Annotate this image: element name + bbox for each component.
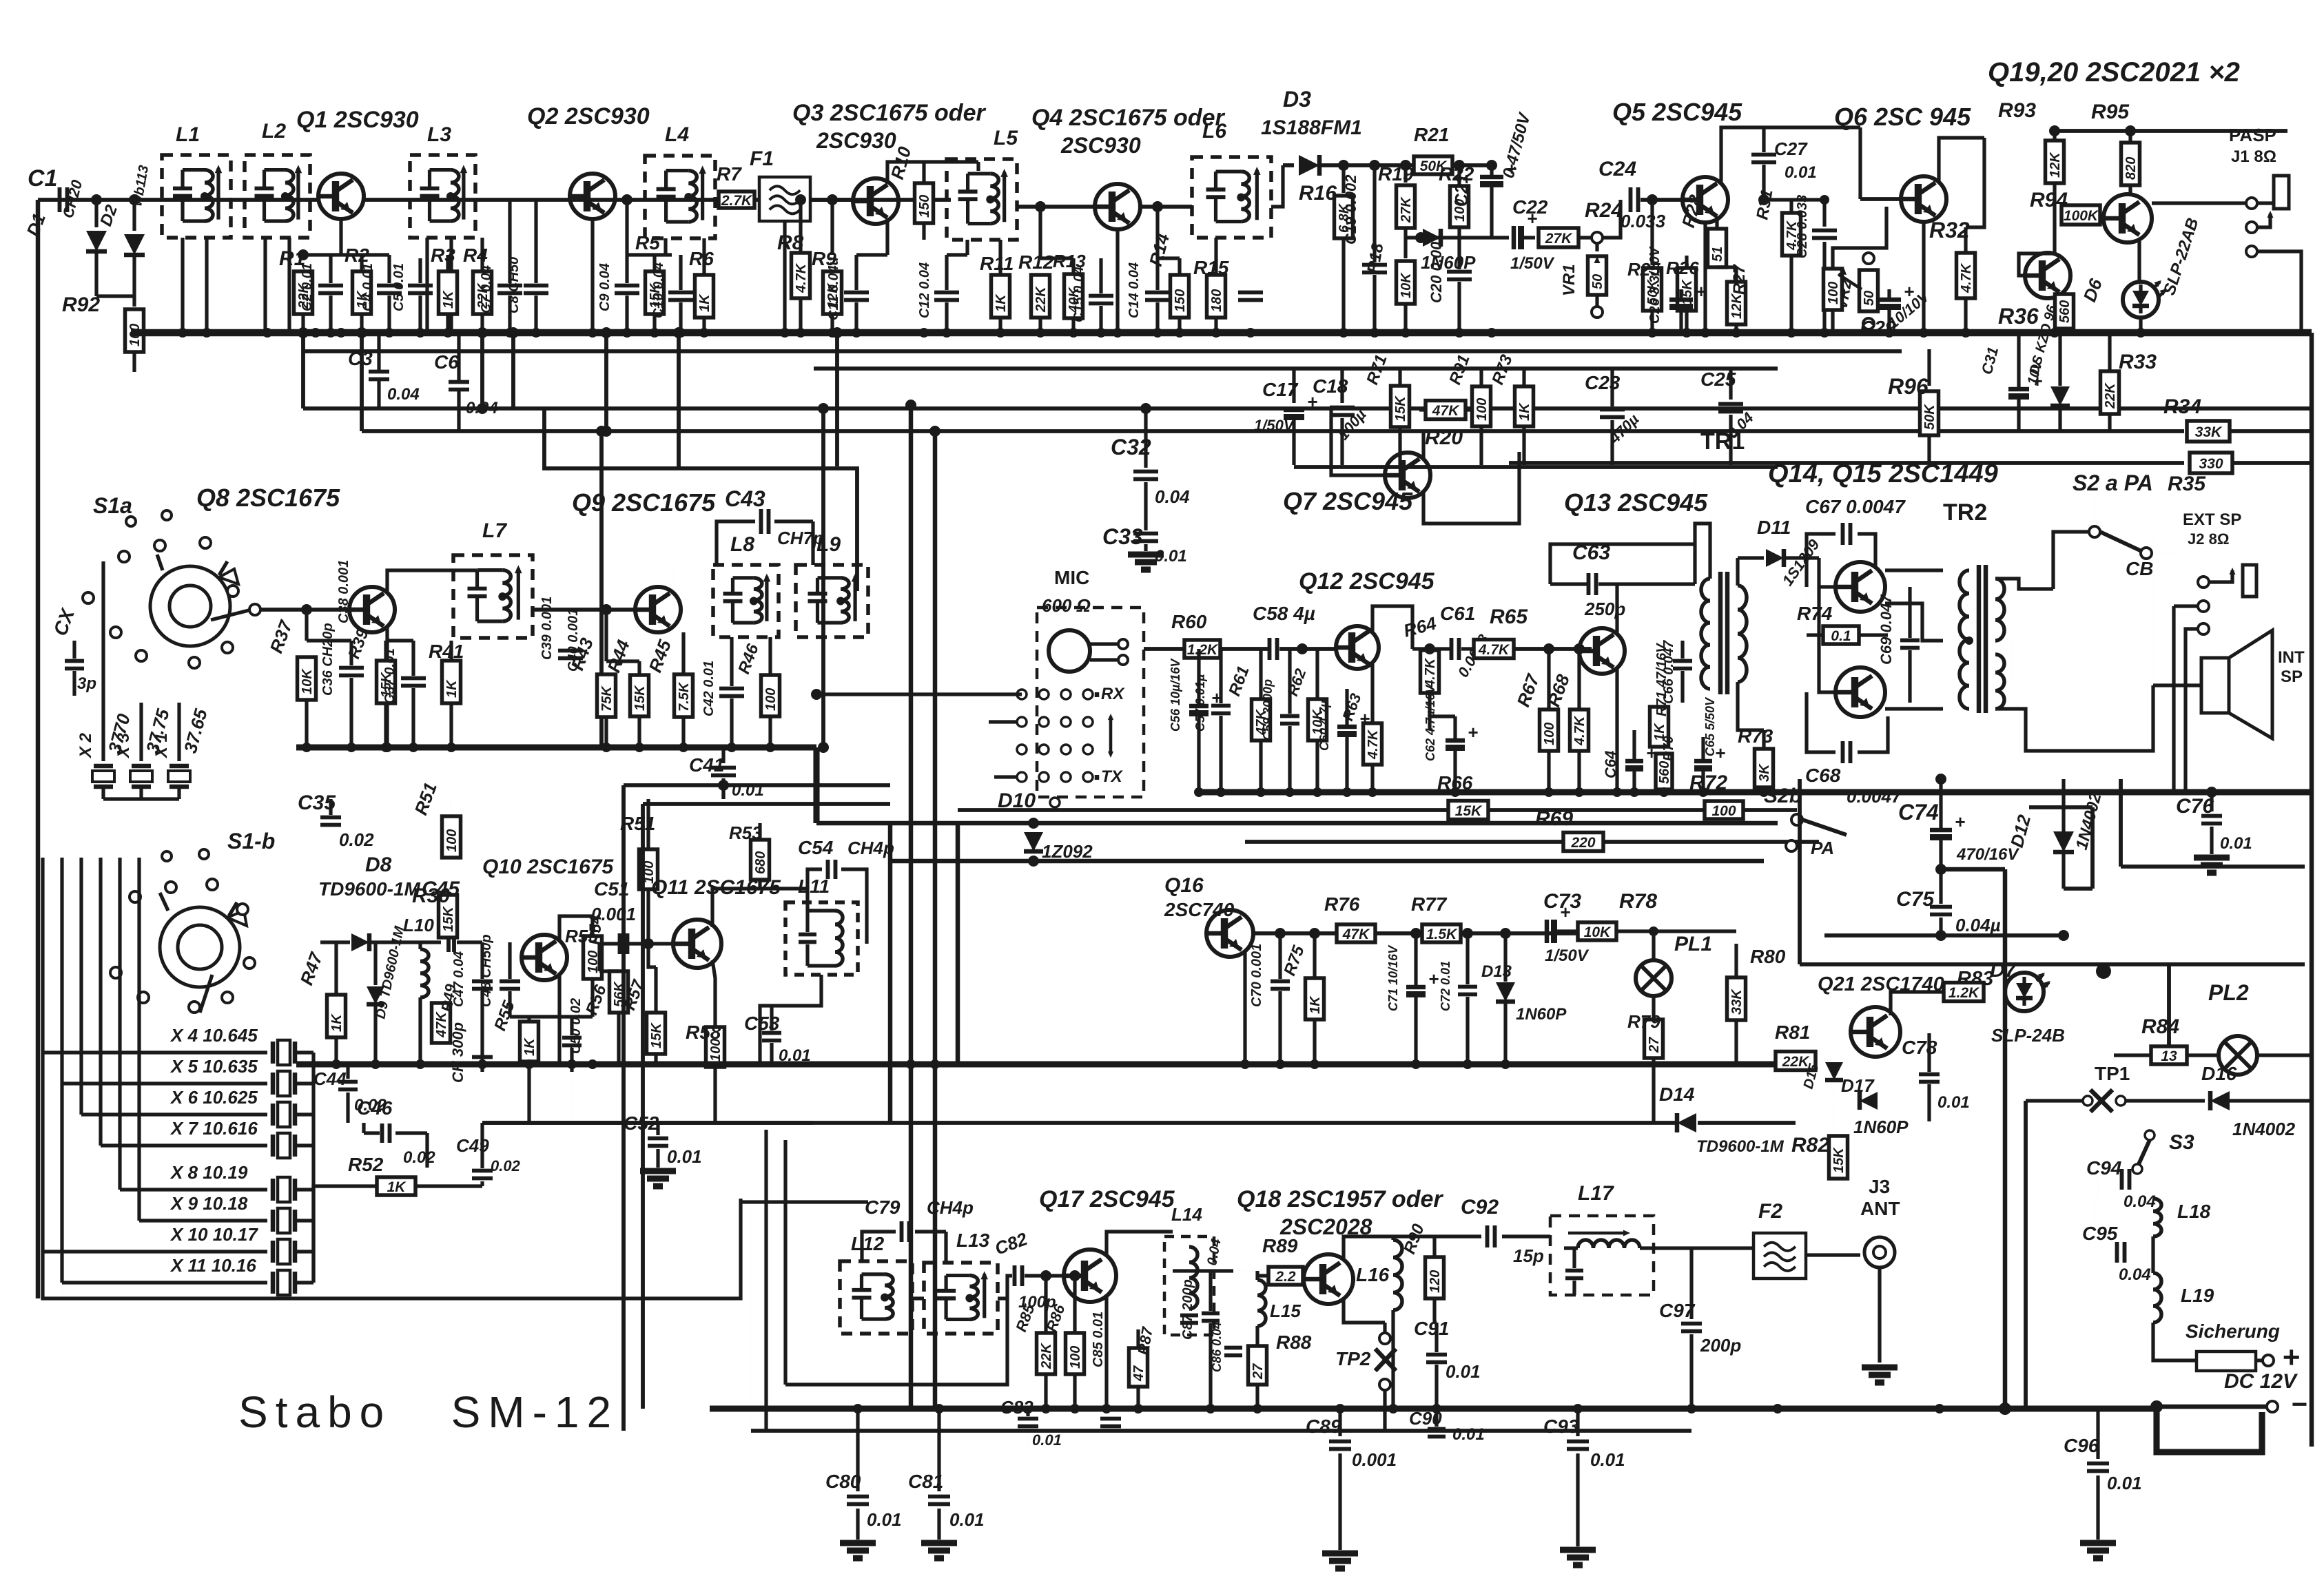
svg-text:L13: L13 <box>956 1230 990 1251</box>
svg-text:L8: L8 <box>730 533 754 556</box>
svg-text:0.001: 0.001 <box>1352 1449 1397 1470</box>
svg-text:C39 0.001: C39 0.001 <box>539 597 555 660</box>
svg-text:0.01: 0.01 <box>1446 1361 1481 1382</box>
svg-text:4.7K: 4.7K <box>794 262 809 293</box>
svg-text:120: 120 <box>1428 1270 1443 1293</box>
svg-text:4.7K: 4.7K <box>1572 715 1587 746</box>
svg-text:C50 0.02: C50 0.02 <box>568 998 584 1054</box>
svg-text:C4 0.01: C4 0.01 <box>360 263 376 311</box>
svg-text:12K: 12K <box>1729 293 1745 319</box>
svg-text:L12: L12 <box>851 1233 885 1254</box>
svg-text:R82: R82 <box>1791 1134 1829 1157</box>
svg-text:27K: 27K <box>1399 196 1414 223</box>
svg-text:CB: CB <box>2126 558 2153 579</box>
svg-text:C28 0.033: C28 0.033 <box>1795 195 1810 258</box>
svg-text:2.7K: 2.7K <box>721 193 753 209</box>
svg-text:600 Ω: 600 Ω <box>1042 595 1091 616</box>
svg-text:R26: R26 <box>1666 258 1699 278</box>
svg-text:TD9600-1M: TD9600-1M <box>318 878 421 900</box>
svg-text:C15 0.04: C15 0.04 <box>1071 267 1087 322</box>
svg-text:R93: R93 <box>1998 99 2036 122</box>
svg-text:SP: SP <box>2281 667 2303 686</box>
svg-text:PASP: PASP <box>2229 125 2276 145</box>
svg-text:C68: C68 <box>1805 765 1841 786</box>
svg-text:C38 0.001: C38 0.001 <box>336 560 351 623</box>
svg-text:R58: R58 <box>686 1022 721 1043</box>
svg-text:27: 27 <box>1647 1037 1662 1053</box>
svg-text:R53: R53 <box>729 822 762 843</box>
svg-text:0.1: 0.1 <box>1831 628 1851 644</box>
svg-text:51: 51 <box>1710 247 1725 262</box>
svg-text:47K: 47K <box>434 1011 449 1038</box>
svg-text:L17: L17 <box>1578 1182 1614 1205</box>
svg-text:C44: C44 <box>313 1068 347 1089</box>
svg-text:R79: R79 <box>1627 1011 1660 1032</box>
svg-text:1K: 1K <box>697 293 712 312</box>
svg-text:R89: R89 <box>1262 1235 1298 1256</box>
svg-text:0.01: 0.01 <box>2220 834 2252 853</box>
svg-text:ANT: ANT <box>1860 1198 1900 1219</box>
svg-text:D17: D17 <box>1841 1075 1875 1096</box>
svg-text:0.02: 0.02 <box>403 1148 435 1167</box>
svg-text:C81: C81 <box>908 1471 943 1492</box>
svg-text:0.01: 0.01 <box>949 1509 985 1530</box>
svg-text:C58 4µ: C58 4µ <box>1253 603 1315 624</box>
svg-text:4.7K: 4.7K <box>1959 262 1974 293</box>
svg-text:100: 100 <box>1474 398 1490 421</box>
svg-text:0.001: 0.001 <box>591 904 636 924</box>
svg-text:820: 820 <box>2124 157 2139 180</box>
svg-text:0.04µ: 0.04µ <box>1955 915 2001 935</box>
svg-text:R84: R84 <box>2141 1015 2179 1038</box>
svg-text:R96: R96 <box>1888 374 1929 399</box>
svg-text:L2: L2 <box>262 120 286 143</box>
svg-text:R19: R19 <box>1378 163 1414 185</box>
svg-text:1Z092: 1Z092 <box>1042 841 1093 862</box>
svg-text:X 11 10.16: X 11 10.16 <box>169 1255 256 1276</box>
svg-text:X 6 10.625: X 6 10.625 <box>169 1087 258 1108</box>
svg-text:X 3: X 3 <box>114 732 133 759</box>
svg-text:1/50V: 1/50V <box>1510 254 1555 273</box>
svg-text:C62 4.7µ/16V: C62 4.7µ/16V <box>1423 684 1437 761</box>
svg-text:Q19,20 2SC2021 ×2: Q19,20 2SC2021 ×2 <box>1988 57 2240 87</box>
svg-text:C54: C54 <box>798 837 834 858</box>
svg-text:R95: R95 <box>2091 101 2130 123</box>
svg-text:250p: 250p <box>1584 599 1625 619</box>
svg-text:L7: L7 <box>482 519 507 542</box>
svg-text:R20: R20 <box>1425 426 1463 449</box>
svg-text:R4: R4 <box>463 245 488 266</box>
svg-text:1/50V: 1/50V <box>1545 946 1590 965</box>
svg-text:DC 12V: DC 12V <box>2224 1370 2299 1393</box>
svg-text:C32: C32 <box>1111 435 1151 459</box>
svg-text:1N60P: 1N60P <box>1853 1117 1909 1137</box>
svg-text:C66 0.047: C66 0.047 <box>1661 640 1676 704</box>
svg-text:CH4p: CH4p <box>847 838 894 858</box>
svg-text:C22: C22 <box>1512 196 1548 218</box>
svg-text:13: 13 <box>2161 1048 2177 1064</box>
svg-text:C87 200p: C87 200p <box>1180 1279 1195 1340</box>
svg-text:27: 27 <box>1251 1363 1266 1380</box>
svg-text:Q4 2SC1675 oder: Q4 2SC1675 oder <box>1031 105 1225 131</box>
svg-text:R78: R78 <box>1619 890 1657 913</box>
svg-text:Q3 2SC1675 oder: Q3 2SC1675 oder <box>792 100 986 126</box>
svg-text:RX: RX <box>1101 685 1125 703</box>
svg-text:10K: 10K <box>1584 924 1612 940</box>
svg-text:PL2: PL2 <box>2208 980 2249 1005</box>
svg-text:L18: L18 <box>2177 1201 2211 1222</box>
svg-text:C57 0.01µ: C57 0.01µ <box>1193 674 1207 732</box>
svg-text:220: 220 <box>1570 835 1595 851</box>
svg-text:R65: R65 <box>1490 605 1528 628</box>
svg-text:R55: R55 <box>565 926 598 946</box>
svg-text:R94: R94 <box>2030 189 2068 211</box>
svg-text:R16: R16 <box>1299 182 1337 205</box>
svg-text:50: 50 <box>1862 291 1877 306</box>
svg-text:R7: R7 <box>717 163 742 185</box>
svg-text:+: + <box>1696 281 1706 302</box>
svg-text:0.01: 0.01 <box>667 1146 702 1167</box>
svg-text:2.2: 2.2 <box>1275 1269 1296 1285</box>
svg-text:C17: C17 <box>1262 379 1299 400</box>
svg-text:27K: 27K <box>1545 231 1573 247</box>
svg-text:C74: C74 <box>1898 800 1939 825</box>
svg-text:2SC930: 2SC930 <box>816 128 896 153</box>
svg-text:Q18 2SC1957 oder: Q18 2SC1957 oder <box>1237 1186 1443 1212</box>
svg-text:1.2K: 1.2K <box>1948 985 1980 1001</box>
svg-text:R27: R27 <box>1730 263 1749 295</box>
svg-text:R69: R69 <box>1535 807 1573 830</box>
svg-text:47K: 47K <box>1342 926 1370 942</box>
svg-text:X 4 10.645: X 4 10.645 <box>169 1025 258 1046</box>
svg-text:R21: R21 <box>1414 124 1449 145</box>
svg-text:100: 100 <box>1826 282 1841 304</box>
svg-text:TD9600-1M: TD9600-1M <box>1696 1137 1785 1156</box>
svg-text:33K: 33K <box>2195 424 2223 440</box>
svg-text:C65 5/50V: C65 5/50V <box>1703 696 1717 756</box>
svg-text:D14: D14 <box>1659 1084 1695 1105</box>
svg-text:180: 180 <box>1209 289 1224 312</box>
svg-text:F2: F2 <box>1758 1200 1782 1223</box>
svg-text:3p: 3p <box>77 674 96 693</box>
svg-text:330: 330 <box>2199 456 2223 472</box>
svg-text:C93: C93 <box>1543 1416 1579 1437</box>
svg-text:1K: 1K <box>329 1013 345 1032</box>
svg-text:S2 a PA: S2 a PA <box>2073 470 2153 495</box>
svg-text:C2 0.01: C2 0.01 <box>300 263 315 311</box>
svg-text:7.5K: 7.5K <box>677 681 692 712</box>
svg-text:+: + <box>1955 811 1965 832</box>
svg-text:+: + <box>1428 969 1439 989</box>
svg-text:C6: C6 <box>434 351 459 373</box>
svg-text:D16: D16 <box>2201 1063 2237 1084</box>
svg-text:J1 8Ω: J1 8Ω <box>2231 147 2276 166</box>
svg-text:TR1: TR1 <box>1700 428 1745 455</box>
svg-text:C10 0.04: C10 0.04 <box>651 262 666 318</box>
svg-text:R36: R36 <box>1998 304 2039 329</box>
svg-text:1K: 1K <box>1308 995 1323 1014</box>
svg-text:0.01: 0.01 <box>1937 1093 1970 1112</box>
svg-text:1K: 1K <box>444 679 460 698</box>
svg-text:1K: 1K <box>1517 402 1532 421</box>
svg-text:TP1: TP1 <box>2095 1063 2130 1084</box>
svg-text:C79: C79 <box>865 1197 901 1218</box>
svg-text:Q2 2SC930: Q2 2SC930 <box>527 103 650 130</box>
svg-text:EXT SP: EXT SP <box>2183 510 2241 529</box>
svg-text:L4: L4 <box>665 123 689 146</box>
svg-text:C75: C75 <box>1896 888 1935 911</box>
svg-text:560: 560 <box>2057 300 2073 323</box>
svg-text:0.04: 0.04 <box>2119 1265 2151 1284</box>
svg-text:C9 0.04: C9 0.04 <box>597 263 613 311</box>
svg-text:C1: C1 <box>28 165 57 191</box>
svg-text:R32: R32 <box>1929 218 1970 242</box>
svg-text:100: 100 <box>763 688 779 711</box>
svg-text:INT: INT <box>2278 648 2305 667</box>
svg-text:100: 100 <box>1068 1346 1083 1369</box>
svg-text:R41: R41 <box>429 641 464 662</box>
svg-text:C85 0.01: C85 0.01 <box>1091 1312 1106 1367</box>
svg-text:R52: R52 <box>348 1154 384 1175</box>
svg-text:C47 0.04: C47 0.04 <box>451 951 466 1007</box>
svg-text:C53: C53 <box>744 1013 780 1034</box>
svg-text:Sicherung: Sicherung <box>2186 1321 2280 1342</box>
svg-text:C73: C73 <box>1543 890 1581 913</box>
svg-text:C76: C76 <box>2176 795 2214 818</box>
svg-text:C7 0.04: C7 0.04 <box>479 265 494 313</box>
svg-text:C25: C25 <box>1700 369 1736 390</box>
svg-text:Q17 2SC945: Q17 2SC945 <box>1039 1186 1175 1212</box>
svg-text:C20 0.001: C20 0.001 <box>1428 233 1445 303</box>
svg-text:C27: C27 <box>1774 138 1808 159</box>
svg-text:C46: C46 <box>357 1097 393 1119</box>
svg-text:C80: C80 <box>825 1471 861 1492</box>
svg-text:R77: R77 <box>1411 893 1448 915</box>
svg-text:C35: C35 <box>298 791 336 814</box>
svg-text:X 1: X 1 <box>152 733 171 759</box>
svg-text:R60: R60 <box>1171 611 1207 632</box>
svg-text:0.01: 0.01 <box>867 1509 902 1530</box>
svg-text:C86 0.04: C86 0.04 <box>1210 1322 1224 1372</box>
svg-text:PL1: PL1 <box>1674 933 1712 955</box>
svg-text:J3: J3 <box>1869 1176 1890 1197</box>
svg-text:C11 0.04u: C11 0.04u <box>826 257 841 320</box>
svg-text:C71 10/16V: C71 10/16V <box>1386 944 1400 1011</box>
svg-text:0.02: 0.02 <box>491 1157 521 1174</box>
svg-text:CH 300p: CH 300p <box>449 1022 466 1083</box>
svg-text:D8: D8 <box>365 853 392 876</box>
svg-text:L15: L15 <box>1270 1301 1301 1321</box>
svg-text:100: 100 <box>1711 803 1736 819</box>
svg-text:X 9 10.18: X 9 10.18 <box>169 1193 248 1214</box>
svg-text:15K: 15K <box>633 685 648 711</box>
svg-text:0.01: 0.01 <box>1452 1425 1485 1444</box>
svg-text:0.02: 0.02 <box>339 829 374 850</box>
svg-text:100K: 100K <box>2064 208 2099 224</box>
svg-text:C33: C33 <box>1102 524 1143 549</box>
svg-text:200p: 200p <box>1700 1335 1741 1356</box>
svg-text:C59 3000p: C59 3000p <box>1261 679 1275 741</box>
svg-text:C61: C61 <box>1440 603 1475 624</box>
svg-text:R76: R76 <box>1324 893 1360 915</box>
svg-text:15K: 15K <box>441 906 456 932</box>
svg-text:C63: C63 <box>1572 541 1610 564</box>
svg-text:C92: C92 <box>1461 1196 1499 1219</box>
svg-text:−: − <box>2291 1389 2307 1420</box>
svg-text:22K: 22K <box>2103 382 2118 409</box>
svg-text:75K: 75K <box>599 685 615 712</box>
svg-text:Q10 2SC1675: Q10 2SC1675 <box>482 856 614 878</box>
svg-text:Stabo SM-12: Stabo SM-12 <box>238 1387 619 1437</box>
svg-text:R11: R11 <box>980 253 1014 274</box>
svg-text:R8: R8 <box>777 231 804 254</box>
svg-text:680: 680 <box>753 851 768 874</box>
svg-text:C56 10µ/16V: C56 10µ/16V <box>1169 658 1182 732</box>
svg-text:R88: R88 <box>1276 1332 1312 1353</box>
svg-text:Q1 2SC930: Q1 2SC930 <box>296 107 419 133</box>
svg-text:CH7p: CH7p <box>777 528 824 548</box>
svg-text:10K: 10K <box>1399 272 1414 298</box>
svg-text:R74: R74 <box>1797 603 1833 624</box>
svg-text:TP2: TP2 <box>1335 1348 1371 1369</box>
svg-text:C26 3.3/10V: C26 3.3/10V <box>1647 246 1663 324</box>
svg-text:VR1: VR1 <box>1560 264 1579 296</box>
svg-text:3K: 3K <box>1757 763 1772 782</box>
svg-text:33K: 33K <box>1729 988 1745 1015</box>
svg-text:560: 560 <box>1657 761 1672 784</box>
svg-text:L5: L5 <box>994 127 1018 149</box>
svg-text:TX: TX <box>1101 767 1124 786</box>
svg-text:Q12 2SC945: Q12 2SC945 <box>1299 568 1435 594</box>
svg-text:100: 100 <box>444 829 460 852</box>
svg-text:R5: R5 <box>635 232 660 253</box>
svg-text:0.04: 0.04 <box>2124 1192 2156 1211</box>
svg-text:R80: R80 <box>1750 946 1786 967</box>
svg-text:C41: C41 <box>689 754 724 776</box>
svg-text:0.04: 0.04 <box>466 399 498 417</box>
svg-text:D11: D11 <box>1757 517 1791 538</box>
svg-text:Q6 2SC 945: Q6 2SC 945 <box>1834 103 1971 131</box>
svg-text:R72: R72 <box>1689 772 1727 794</box>
svg-text:L11: L11 <box>798 876 830 897</box>
svg-text:R34: R34 <box>2163 395 2201 418</box>
svg-text:0.04: 0.04 <box>387 385 420 404</box>
svg-text:1N60P: 1N60P <box>1516 1005 1567 1024</box>
svg-text:C60 4.7µ: C60 4.7µ <box>1317 700 1331 751</box>
svg-text:R92: R92 <box>62 293 100 316</box>
svg-text:C89: C89 <box>1306 1416 1341 1437</box>
svg-text:L10: L10 <box>403 915 434 935</box>
svg-text:50K: 50K <box>1922 404 1937 430</box>
svg-text:R35: R35 <box>2168 473 2206 495</box>
svg-text:470/16V: 470/16V <box>1956 845 2019 864</box>
svg-text:12K: 12K <box>2048 152 2063 178</box>
svg-text:C43: C43 <box>725 486 765 511</box>
svg-text:C64: C64 <box>1602 751 1619 778</box>
svg-text:22K: 22K <box>1034 286 1049 313</box>
svg-text:CH4p: CH4p <box>927 1197 974 1218</box>
svg-text:1K: 1K <box>387 1179 407 1195</box>
svg-text:0.01: 0.01 <box>1785 163 1817 182</box>
svg-text:47: 47 <box>1131 1365 1146 1382</box>
svg-text:1N4002: 1N4002 <box>2232 1119 2296 1139</box>
svg-text:C95: C95 <box>2082 1223 2118 1244</box>
svg-text:15K: 15K <box>1393 395 1408 422</box>
svg-text:1.5K: 1.5K <box>1426 926 1458 942</box>
svg-text:C49: C49 <box>456 1135 489 1156</box>
svg-text:Q9 2SC1675: Q9 2SC1675 <box>572 488 716 517</box>
svg-text:15K: 15K <box>649 1022 664 1048</box>
svg-text:R12: R12 <box>1018 251 1054 273</box>
svg-text:R70: R70 <box>1661 736 1676 761</box>
svg-text:50: 50 <box>1590 274 1605 289</box>
svg-text:R81: R81 <box>1775 1022 1810 1043</box>
svg-text:C3: C3 <box>348 348 373 369</box>
svg-text:L3: L3 <box>427 123 451 146</box>
svg-text:0.01: 0.01 <box>1032 1431 1062 1449</box>
svg-text:10K: 10K <box>300 668 315 694</box>
svg-text:C12 0.04: C12 0.04 <box>917 262 932 318</box>
svg-text:R6: R6 <box>689 248 714 269</box>
svg-text:C5 0.01: C5 0.01 <box>391 263 407 311</box>
svg-text:S3: S3 <box>2169 1131 2194 1154</box>
svg-text:150: 150 <box>917 195 932 218</box>
svg-text:Q16: Q16 <box>1164 874 1204 897</box>
svg-text:15K: 15K <box>1831 1147 1847 1173</box>
svg-text:R33: R33 <box>2119 351 2157 373</box>
svg-text:PA: PA <box>1811 838 1834 858</box>
svg-text:TR2: TR2 <box>1943 499 1987 526</box>
svg-text:4.7K: 4.7K <box>1423 657 1438 688</box>
svg-text:1K: 1K <box>522 1037 537 1056</box>
svg-text:X 8 10.19: X 8 10.19 <box>169 1162 248 1183</box>
svg-text:150: 150 <box>1173 289 1188 312</box>
svg-text:R15: R15 <box>1193 257 1229 278</box>
svg-text:1/50V: 1/50V <box>1254 417 1295 434</box>
svg-text:47K: 47K <box>1432 403 1460 419</box>
svg-text:22K: 22K <box>1039 1343 1054 1369</box>
svg-text:X 10 10.17: X 10 10.17 <box>169 1224 258 1245</box>
svg-text:R30: R30 <box>412 884 450 907</box>
svg-text:C24: C24 <box>1598 158 1636 180</box>
svg-text:S2b: S2b <box>1764 785 1802 807</box>
svg-text:C42 0.01: C42 0.01 <box>701 661 717 716</box>
svg-text:C18: C18 <box>1313 375 1348 397</box>
svg-text:S1-b: S1-b <box>227 829 275 853</box>
svg-text:X 2: X 2 <box>76 732 95 759</box>
svg-text:D3: D3 <box>1283 87 1311 112</box>
svg-text:C94: C94 <box>2086 1157 2122 1179</box>
svg-text:SLP-24B: SLP-24B <box>1991 1025 2065 1046</box>
svg-text:L16: L16 <box>1356 1264 1390 1285</box>
svg-text:X 7 10.616: X 7 10.616 <box>169 1118 258 1139</box>
svg-text:C70 0.001: C70 0.001 <box>1249 944 1264 1007</box>
svg-text:C19 0.002: C19 0.002 <box>1342 174 1359 245</box>
svg-text:C72 0.01: C72 0.01 <box>1439 961 1452 1011</box>
svg-text:+: + <box>2282 1340 2300 1374</box>
svg-text:L19: L19 <box>2181 1285 2214 1306</box>
svg-text:1K: 1K <box>994 293 1009 312</box>
svg-text:0.04: 0.04 <box>1155 486 1190 507</box>
svg-text:+: + <box>1468 722 1478 743</box>
svg-text:C96: C96 <box>2064 1435 2099 1456</box>
svg-text:MIC: MIC <box>1054 567 1089 588</box>
svg-text:C48 CH50p: C48 CH50p <box>479 934 494 1007</box>
svg-text:X 5 10.635: X 5 10.635 <box>169 1056 258 1077</box>
svg-text:2SC930: 2SC930 <box>1060 133 1141 158</box>
svg-text:0.01: 0.01 <box>2107 1473 2142 1493</box>
svg-text:1K: 1K <box>441 290 456 309</box>
